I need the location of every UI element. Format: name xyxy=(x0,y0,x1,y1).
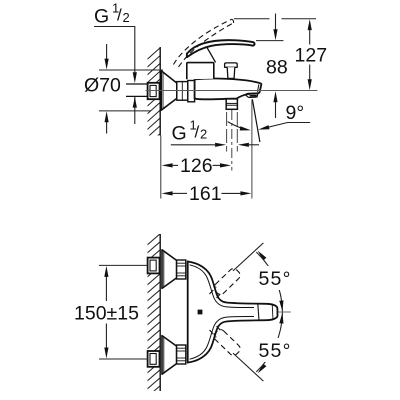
svg-text:127: 127 xyxy=(295,45,328,67)
grip end inner line xyxy=(271,304,274,320)
lower union nut (plan) xyxy=(177,345,186,364)
radial line 55 lower xyxy=(233,353,263,381)
aerator slot xyxy=(250,95,257,97)
dimension 126 xyxy=(162,163,173,167)
faucet axis centerline xyxy=(146,90,318,92)
dashed lever position upper (plan) xyxy=(212,267,242,296)
aerator housing xyxy=(245,93,258,97)
upper escutcheon (plan) xyxy=(162,250,177,289)
dashed lever (raised position) xyxy=(174,19,232,64)
9 degree legs xyxy=(251,99,253,198)
shower outlet extension lines xyxy=(226,112,228,152)
body with lever (plan view) xyxy=(188,261,278,362)
shower outlet thread xyxy=(226,99,237,109)
svg-text:/: / xyxy=(117,6,122,25)
label 55 lower xyxy=(256,338,294,362)
diverter knob xyxy=(225,63,238,67)
union collar xyxy=(188,81,195,102)
G1/2 lower arrow xyxy=(134,97,136,124)
wall face line (upper view) xyxy=(159,47,161,136)
svg-text:2: 2 xyxy=(123,10,130,25)
cartridge mark xyxy=(198,310,203,315)
upper union nut (plan) xyxy=(177,260,186,279)
dia 70 extension lines xyxy=(99,69,163,71)
extension line lever top (88) xyxy=(256,40,284,42)
svg-text:G: G xyxy=(172,123,187,145)
extension line top (127) xyxy=(234,18,270,20)
lower inlet elbow square xyxy=(148,351,160,367)
dimension 88 xyxy=(275,14,277,31)
solid lever handle xyxy=(187,40,255,57)
55 lower arc xyxy=(256,313,282,372)
square wall union fitting xyxy=(148,83,160,99)
lever grip separation line (plan) xyxy=(258,304,259,321)
wall face extension line down to 161 dim xyxy=(160,136,162,199)
svg-text:55°: 55° xyxy=(259,340,292,362)
union nut xyxy=(177,82,188,101)
svg-text:2: 2 xyxy=(200,127,207,142)
svg-text:55°: 55° xyxy=(259,268,292,290)
dimension 150 +/- 15 xyxy=(104,266,108,277)
svg-text:88: 88 xyxy=(266,57,288,79)
wall face line (lower view) xyxy=(159,234,161,391)
9 degree arc and arrow xyxy=(228,122,248,130)
svg-text:9°: 9° xyxy=(286,102,305,124)
dia 70 dimension arrows xyxy=(106,44,108,59)
lever rear edge xyxy=(207,47,216,63)
svg-text:150±15: 150±15 xyxy=(74,303,139,325)
G1/2 leader underline and line xyxy=(94,27,135,73)
55 upper arc xyxy=(256,252,282,311)
svg-text:161: 161 xyxy=(189,183,222,205)
svg-text:Ø70: Ø70 xyxy=(84,75,121,97)
dimension 127 xyxy=(308,19,312,30)
body inner contour (plan) xyxy=(190,265,255,308)
svg-text:G: G xyxy=(94,6,109,28)
label 55 upper xyxy=(256,266,294,290)
radial line 55 upper xyxy=(233,243,263,271)
svg-text:/: / xyxy=(195,123,200,142)
shower G1/2 dimension leader with arrows xyxy=(171,144,215,146)
150 dim extension lines xyxy=(99,264,148,266)
escutcheon (side view cone) xyxy=(161,71,177,110)
9 degree leader xyxy=(263,123,311,129)
wall (upper view) hatched band xyxy=(147,47,162,146)
dashed lever position lower (plan) xyxy=(212,328,242,357)
wall (lower view) hatched band xyxy=(146,233,161,400)
spout head inner line xyxy=(257,84,259,92)
cartridge cap under lever xyxy=(187,63,214,80)
svg-text:126: 126 xyxy=(180,155,213,177)
lower escutcheon (plan) xyxy=(162,336,177,375)
plan centerline xyxy=(279,311,291,313)
dimension 161 xyxy=(162,191,173,195)
shower outlet centerline xyxy=(231,110,233,171)
supply pipe behind wall xyxy=(126,84,149,96)
upper inlet elbow square xyxy=(148,258,160,274)
faucet body with spout (side view) xyxy=(195,78,262,99)
